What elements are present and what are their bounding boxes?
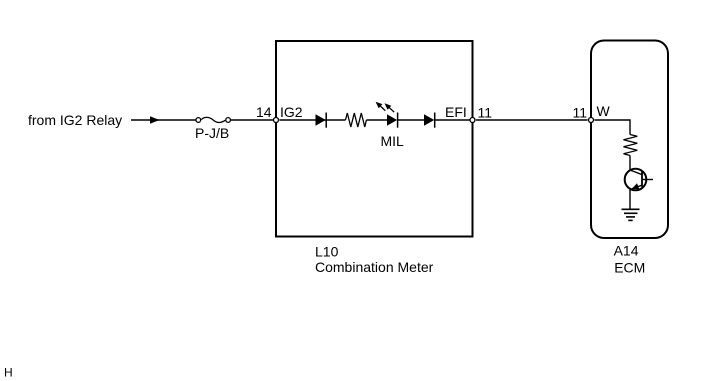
svg-text:from IG2 Relay: from IG2 Relay [28, 112, 122, 128]
svg-text:P-J/B: P-J/B [195, 125, 229, 141]
terminal EFI circle on box edge [470, 118, 475, 123]
wire: resistor to MIL LED [366, 119, 387, 121]
wire: fusible link to combination meter terminal 14 [231, 119, 273, 121]
arrow: current direction [150, 116, 160, 123]
svg-text:IG2: IG2 [280, 104, 303, 120]
svg-text:ECM: ECM [614, 260, 645, 276]
svg-text:W: W [597, 103, 611, 119]
fusible link P-J/B wavy element [201, 117, 225, 122]
svg-text:EFI: EFI [445, 104, 467, 120]
transistor Q (ECM) [625, 169, 647, 191]
wire: diode D2 to terminal EFI [435, 119, 473, 121]
svg-text:11: 11 [573, 105, 588, 121]
svg-text:A14: A14 [614, 243, 639, 259]
resistor (combination meter) [346, 113, 367, 127]
terminal W circle on ECM edge [589, 118, 594, 123]
LED light arrow 1 [379, 105, 385, 111]
resistor (ECM pull-up) [624, 135, 638, 156]
terminal IG2 circle on box edge [274, 118, 279, 123]
wire: transistor emitter to ground [629, 190, 631, 210]
wire: combination meter to ECM [476, 119, 588, 121]
diode D1 [316, 114, 326, 125]
ground [622, 208, 640, 210]
svg-text:11: 11 [478, 105, 493, 121]
svg-text:H: H [4, 366, 13, 380]
combination meter box L10 [276, 41, 473, 237]
LED light arrow 2 [388, 106, 394, 112]
fusible link P-J/B left terminal circle [196, 118, 201, 123]
ECM box A14 [591, 41, 668, 239]
wire: MIL to diode D2 [398, 119, 424, 121]
LED MIL diode [387, 114, 397, 125]
wire: resistor to transistor collector [629, 156, 631, 171]
fusible link P-J/B right terminal circle [226, 118, 231, 123]
wire: terminal W to internal resistor [595, 120, 631, 135]
svg-text:Combination Meter: Combination Meter [315, 259, 434, 275]
wire: terminal IG2 to resistor [280, 119, 346, 121]
svg-text:MIL: MIL [381, 133, 405, 149]
svg-text:14: 14 [256, 104, 272, 120]
diode D2 [424, 114, 434, 125]
svg-text:L10: L10 [315, 243, 339, 259]
wire: from IG2 Relay to fusible link [131, 119, 196, 121]
